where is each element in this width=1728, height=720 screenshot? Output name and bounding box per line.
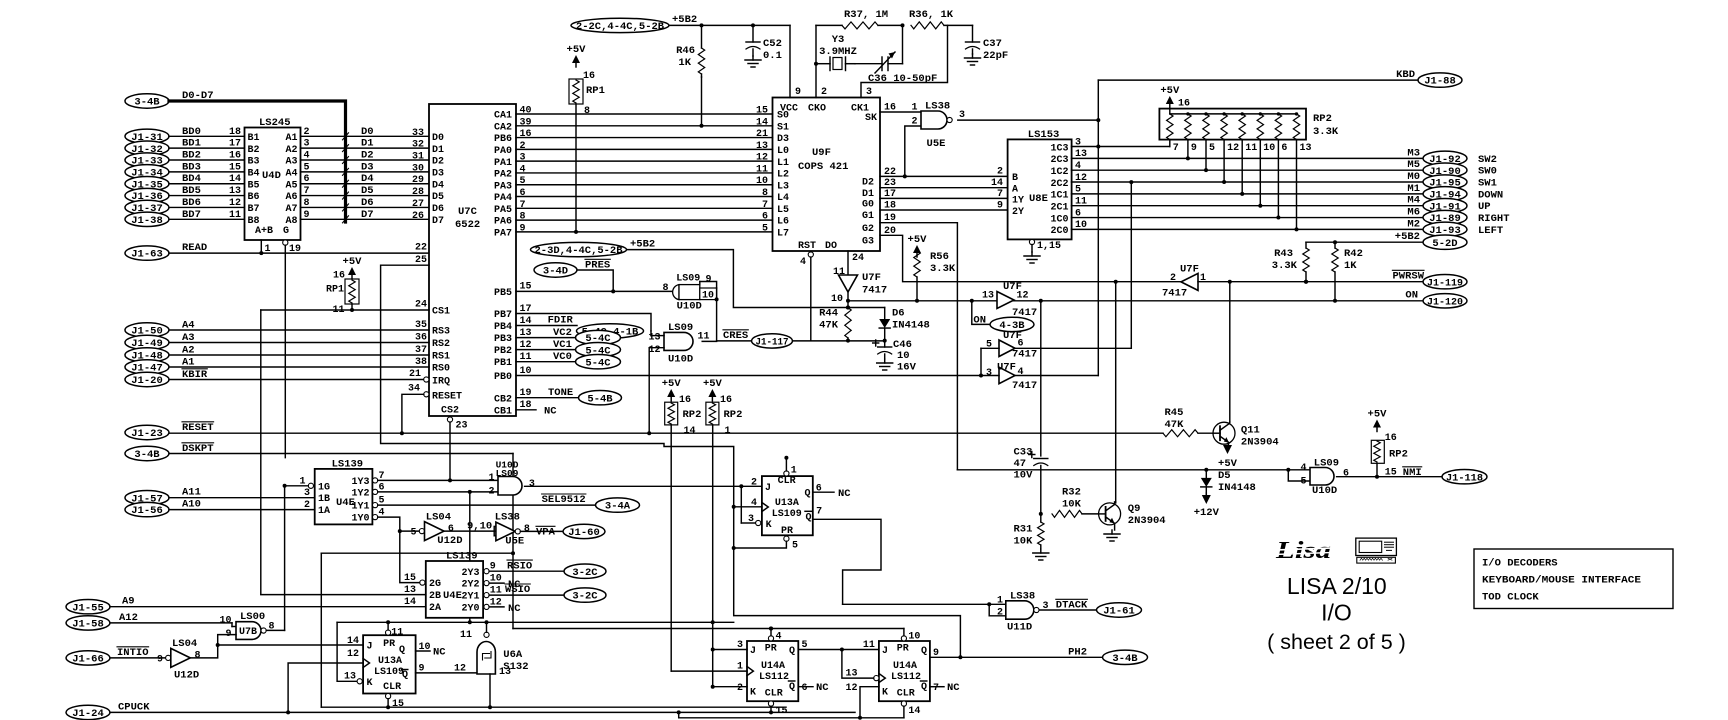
wire PB5 [516,290,672,292]
svg-text:3: 3 [959,110,965,121]
resistor R56 [914,251,920,277]
connector J1-34 [125,165,169,179]
svg-text:L0: L0 [777,146,789,157]
svg-text:+5V: +5V [567,44,587,56]
svg-text:RS1: RS1 [432,352,450,363]
svg-text:J1-60: J1-60 [568,527,600,539]
svg-text:COPS 421: COPS 421 [798,161,848,173]
svg-text:2: 2 [751,477,757,488]
svg-text:14: 14 [991,178,1003,189]
wire 628 line [513,628,904,630]
svg-text:NC: NC [947,682,960,694]
svg-text:U8E: U8E [1029,193,1048,205]
resistor R44 [845,308,851,339]
svg-text:13: 13 [499,667,511,678]
wire ON net [848,300,1422,302]
svg-text:CA2: CA2 [494,122,512,133]
svg-text:+5B2: +5B2 [672,14,697,26]
svg-text:7: 7 [1173,143,1179,154]
svg-text:7417: 7417 [1012,349,1037,361]
svg-text:11: 11 [756,164,768,175]
svg-text:U7F: U7F [997,362,1016,374]
svg-text:CRES: CRES [723,330,748,342]
svg-text:3-2C: 3-2C [572,591,598,603]
svg-text:PA6: PA6 [494,217,512,228]
svg-text:LISA 2/10: LISA 2/10 [1287,573,1387,599]
pin 4 1Y0 [373,515,378,520]
svg-text:K: K [882,688,888,699]
svg-text:5: 5 [1300,477,1306,488]
svg-text:U14A: U14A [893,661,917,672]
svg-text:R31: R31 [1014,524,1033,536]
svg-text:PB0: PB0 [494,372,512,383]
svg-text:SEL9512: SEL9512 [542,494,586,506]
svg-text:12: 12 [648,345,660,356]
svg-text:5-4C: 5-4C [585,357,611,369]
svg-text:7417: 7417 [1012,307,1037,319]
svg-text:10: 10 [908,632,920,643]
svg-text:U13A: U13A [378,656,402,667]
wire WSIO [489,594,564,596]
svg-text:Q: Q [789,646,795,657]
wire CA1-S0 [516,113,773,115]
svg-text:WSIO: WSIO [505,584,530,596]
svg-text:10: 10 [1263,143,1275,154]
power +5V RP2d [708,389,716,397]
svg-text:RST: RST [798,241,816,252]
svg-text:3-4B: 3-4B [134,449,160,461]
svg-text:8: 8 [195,650,201,661]
svg-text:LS04: LS04 [172,638,197,650]
wire RP1b down [575,104,577,232]
svg-text:3: 3 [986,368,992,379]
pin 34 RESET [424,392,429,397]
svg-text:A4: A4 [285,168,297,179]
wire 1G [285,485,309,487]
ground C52 [752,56,754,60]
wire A1 to D0 [301,135,430,137]
svg-text:LS09: LS09 [668,322,693,334]
pin 11 2Y1 [484,593,489,598]
svg-text:10V: 10V [1014,470,1034,482]
svg-text:34: 34 [408,384,420,395]
svg-text:PR: PR [897,644,909,655]
svg-text:J1-23: J1-23 [131,428,163,440]
svg-text:27: 27 [412,199,424,210]
pin 5 PR b [784,536,789,541]
net flag 3-4D PRES [534,263,577,277]
svg-text:PR: PR [383,639,395,650]
svg-text:12: 12 [756,153,768,164]
net flag 5-4C,4-1B [577,324,644,338]
svg-text:3-4A: 3-4A [605,501,631,513]
pin 9 2Y3 [484,569,489,574]
svg-text:16: 16 [583,71,595,82]
wire 1Y2 vert [469,492,471,622]
power +5V RP2 pack [1166,96,1174,104]
pin 23 CS2 [447,417,452,422]
svg-text:Q: Q [921,682,927,693]
svg-text:16: 16 [720,395,732,406]
IC U4E LS139 b [426,561,483,618]
svg-text:15: 15 [776,706,788,717]
connector J1-23 [125,425,169,439]
pin 13 U6A [489,674,491,707]
svg-text:CLR: CLR [765,688,783,699]
pin 15 CLR a2 [768,701,773,706]
svg-text:1B: 1B [318,494,330,505]
transistor Q11 2N3904 [1213,422,1235,444]
svg-text:A12: A12 [119,612,138,624]
wire READ [169,252,429,254]
svg-text:7417: 7417 [1012,380,1037,392]
diode D5 [1205,470,1207,478]
svg-text:9: 9 [706,274,712,285]
svg-text:K: K [766,520,772,531]
svg-text:47: 47 [1014,458,1027,470]
resistor R32 [1052,510,1082,517]
svg-text:SW1: SW1 [1478,178,1497,190]
svg-text:KBD: KBD [1396,69,1415,81]
svg-text:B1: B1 [248,133,260,144]
pin 13 K a [357,679,362,684]
svg-text:NC: NC [816,682,829,694]
gate U10D d LS09 [1310,468,1334,486]
svg-text:D3: D3 [361,161,374,173]
svg-text:J1-58: J1-58 [72,619,104,631]
svg-text:1C3: 1C3 [1050,143,1068,154]
svg-text:R32: R32 [1062,487,1081,499]
svg-text:S1: S1 [777,122,789,133]
wire BD7 [169,218,245,220]
svg-text:32: 32 [412,140,424,151]
svg-text:LS38: LS38 [1010,590,1035,602]
wire A4 to D3 [301,171,430,173]
wire PA6-L6 [516,219,773,221]
wire +5B2 rail [669,24,790,26]
svg-text:D3: D3 [777,134,789,145]
svg-text:ON: ON [973,314,986,326]
svg-text:16: 16 [679,395,691,406]
wire RP2 pin 11 [1241,140,1243,194]
wire RST down [810,257,812,341]
wire RP2 pin 12 [1223,140,1225,182]
svg-text:RP1: RP1 [326,285,344,296]
svg-text:D6: D6 [892,308,905,320]
ground U8E [1031,245,1033,252]
svg-text:+5V: +5V [1368,409,1388,421]
wire E net [381,265,961,657]
wire M1 row [1072,193,1423,195]
svg-text:10K: 10K [1062,499,1082,511]
wire G3 [880,235,1181,281]
wire BD4 [169,183,245,185]
wire 2Y2 NC [489,582,504,584]
inverter U12D a LS04 [166,655,171,660]
wire CS1 vert [260,310,262,594]
svg-text:6: 6 [1281,143,1287,154]
clk triangle U13A a [363,659,369,668]
svg-text:NC: NC [544,405,557,417]
svg-text:M5: M5 [1407,159,1420,171]
svg-text:VPA: VPA [536,527,556,539]
svg-text:+5V: +5V [1160,85,1180,97]
svg-text:13: 13 [344,672,356,683]
svg-text:RS3: RS3 [432,327,450,338]
wire CS2 down [449,422,451,480]
wire K a2 [713,686,747,688]
svg-text:B5: B5 [248,180,260,191]
svg-text:U4E: U4E [443,590,462,602]
svg-text:R56: R56 [930,251,949,263]
net flag 5-4C 1 [576,342,621,356]
svg-text:0.1: 0.1 [763,50,782,62]
svg-text:READ: READ [182,242,207,254]
svg-text:15: 15 [392,699,404,710]
svg-text:U14A: U14A [761,661,785,672]
pin 4 RST [808,252,813,257]
svg-text:2: 2 [304,127,310,138]
junction buffer13 [970,299,974,303]
wire M3 row [1072,157,1423,159]
junction R46 [700,23,704,27]
svg-text:1G: 1G [318,482,330,493]
junction 2C2 vert [1129,180,1133,184]
svg-text:IN4148: IN4148 [1218,482,1256,494]
svg-text:19: 19 [289,244,301,255]
wire U5E pin2 elbow [905,126,921,176]
junction C52 [751,23,755,27]
wire PA0-L0 [516,148,773,150]
net flag 4-3B [990,317,1034,331]
IC U4E LS139 a [315,469,373,525]
svg-text:PA0: PA0 [494,146,512,157]
svg-text:1A: 1A [318,506,330,517]
power +5V RP2c [667,389,675,397]
svg-text:PA2: PA2 [494,170,512,181]
wire 321 vert [320,553,322,707]
wire CKO up [815,25,817,97]
svg-text:A10: A10 [182,499,201,511]
power +12V [1202,495,1211,504]
bus D0-D7 [169,101,346,222]
svg-text:J1-117: J1-117 [756,338,789,349]
svg-text:7417: 7417 [862,285,887,297]
svg-text:D7: D7 [361,209,374,221]
svg-text:16: 16 [520,129,532,140]
svg-text:Q: Q [921,646,927,657]
svg-text:PB4: PB4 [494,322,512,333]
junction R44 top [846,306,850,310]
wire VPA [520,530,563,532]
connector J1-24 [66,705,110,719]
svg-text:7: 7 [816,507,822,518]
wire DSKPT [169,453,513,455]
svg-text:D2: D2 [862,178,874,189]
bus tap D7 [343,216,349,223]
clk triangle U13A b [762,503,768,512]
svg-text:NC: NC [433,647,446,659]
svg-text:U7F: U7F [862,272,881,284]
svg-text:3.3K: 3.3K [1272,260,1298,272]
transistor Q9 2N3904 [1099,503,1121,525]
wire U7B out [266,629,284,631]
svg-text:D6: D6 [432,204,444,215]
pin 5 1Y1 [373,503,378,508]
wire PB2 [516,349,576,351]
svg-text:2C2: 2C2 [1050,179,1068,190]
svg-text:D5: D5 [432,192,444,203]
IC U13A LS109 b [762,476,813,535]
wire 13 in [650,331,652,336]
svg-text:J1-55: J1-55 [72,602,104,614]
svg-text:3-4B: 3-4B [1112,653,1138,665]
IC U8E LS153 [1008,139,1072,239]
svg-text:6522: 6522 [455,219,480,231]
svg-text:14: 14 [684,426,696,437]
svg-text:CLR: CLR [778,476,796,487]
wire PA2-L2 [516,172,773,174]
svg-text:PA4: PA4 [494,193,512,204]
svg-text:17: 17 [229,139,241,150]
capacitor C36 variable [855,63,882,65]
svg-text:L1: L1 [777,158,789,169]
svg-text:8: 8 [524,524,530,535]
svg-text:M2: M2 [1407,218,1420,230]
connector J1-35 [125,177,169,191]
svg-text:RP2: RP2 [683,409,702,421]
svg-text:Q: Q [402,670,408,681]
connector J1-38 [125,212,169,226]
gate U10D a LS09 [673,285,679,300]
wire 1C3 row [1072,146,1170,148]
svg-text:7: 7 [304,186,310,197]
svg-text:RP2: RP2 [1389,449,1408,461]
svg-text:R37, 1M: R37, 1M [844,9,888,21]
wire A11 [169,497,315,499]
wire BD1 [169,147,245,149]
wire 469 line [957,469,1310,471]
connector J1-48 [125,348,169,362]
gate U7B LS00 [236,622,261,640]
junction D2 [903,174,907,178]
svg-text:10: 10 [219,615,231,626]
svg-text:16: 16 [1385,433,1397,444]
svg-text:A7: A7 [285,204,297,215]
svg-text:2C3: 2C3 [1050,155,1068,166]
svg-text:U12D: U12D [437,535,462,547]
svg-text:CA1: CA1 [494,111,512,122]
svg-text:LS109: LS109 [772,509,802,520]
wire 6 out [1015,347,1131,349]
svg-text:2: 2 [520,141,526,152]
bus tap D2 [343,157,349,164]
svg-text:U6A: U6A [503,649,523,661]
svg-text:1K: 1K [1344,260,1357,272]
gate U5E b LS38 [493,527,495,536]
pin 13 clk b2 [874,676,879,681]
wire PB1 [516,361,576,363]
power +5V R56 [913,245,921,253]
wire VCC drop [789,25,791,97]
svg-text:40: 40 [520,106,532,117]
svg-text:Q9: Q9 [1128,503,1141,515]
svg-text:U9F: U9F [812,147,831,159]
svg-text:VC1: VC1 [553,339,572,351]
wire PA7-L7 [516,231,773,233]
wire PH2 [930,656,1103,658]
svg-text:D2: D2 [361,150,374,162]
connector J1-66 [66,651,110,665]
svg-text:SW2: SW2 [1478,154,1497,166]
svg-text:1C2: 1C2 [1050,167,1068,178]
wire 6 to U5E [444,530,495,532]
svg-text:PWRSW: PWRSW [1392,271,1424,283]
svg-text:U7C: U7C [458,206,478,218]
svg-text:6: 6 [802,683,808,694]
svg-text:D5: D5 [361,185,374,197]
bus tap D1 [343,145,349,152]
svg-text:B4: B4 [248,168,260,179]
svg-text:12: 12 [454,663,466,674]
svg-text:LS09: LS09 [676,274,700,285]
pin 19 G [283,240,288,245]
svg-text:11: 11 [460,630,472,641]
wire U5E out [958,119,1099,121]
svg-text:D1: D1 [361,138,374,150]
capacitor C52 [752,25,754,42]
svg-text:RIGHT: RIGHT [1478,213,1510,225]
resistor R46 [701,25,703,48]
svg-text:10: 10 [897,350,910,362]
connector J1-119 [1423,275,1467,289]
svg-text:TOD CLOCK: TOD CLOCK [1482,592,1539,604]
svg-text:22: 22 [415,243,427,254]
svg-text:2: 2 [488,486,494,497]
svg-text:13: 13 [1300,143,1312,154]
wire U7B out vert [284,486,286,631]
resistor RP2e [1371,440,1384,463]
svg-text:47K: 47K [819,320,839,332]
wire 4 out [1015,375,1098,377]
svg-text:J: J [367,642,373,653]
wire RP1a-CS1 [351,304,353,310]
pin 1 A+B [260,240,262,253]
wire 1Y1 SEL9512 [378,504,596,506]
svg-text:2: 2 [1170,273,1176,284]
wire INTIO [110,657,166,659]
svg-text:J: J [765,483,771,494]
net flag 5-4B [579,391,622,405]
svg-text:1: 1 [265,244,271,255]
svg-text:PH2: PH2 [1068,646,1087,658]
svg-text:LS00: LS00 [240,611,265,623]
wire RP2 pin 9 [1187,140,1189,159]
svg-text:1: 1 [488,473,494,484]
wire 12 out [1039,299,1043,303]
pin 10 2Y2 [484,581,489,586]
wire KBD [1098,79,1418,81]
svg-text:6: 6 [762,212,768,223]
wire A3 to D2 [301,159,430,161]
bus tap D0 [343,133,349,140]
wire clk b [734,506,762,508]
svg-text:VCC: VCC [780,104,798,115]
svg-text:PB5: PB5 [494,288,512,299]
wire Q a2 [798,649,879,651]
pin 3 K b [756,520,761,525]
wire 1Y3 [378,479,498,481]
